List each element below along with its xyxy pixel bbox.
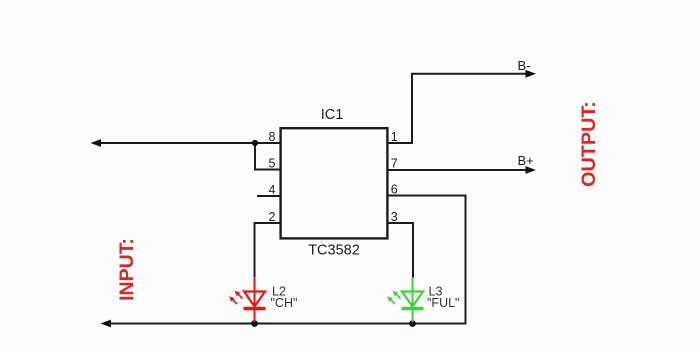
svg-text:"CH": "CH" [271,296,298,310]
svg-text:B+: B+ [518,153,534,168]
svg-text:2: 2 [269,210,276,224]
svg-text:IC1: IC1 [321,107,344,123]
svg-text:TC3582: TC3582 [308,243,360,259]
svg-text:5: 5 [269,157,276,171]
svg-text:INPUT:: INPUT: [116,238,138,301]
svg-text:1: 1 [391,130,398,144]
svg-text:B-: B- [518,58,531,73]
svg-text:7: 7 [391,157,398,171]
svg-text:8: 8 [269,130,276,144]
svg-text:3: 3 [391,210,398,224]
svg-text:6: 6 [391,183,398,197]
svg-text:OUTPUT:: OUTPUT: [578,101,600,187]
svg-text:4: 4 [269,183,276,197]
svg-text:"FUL": "FUL" [427,296,460,310]
